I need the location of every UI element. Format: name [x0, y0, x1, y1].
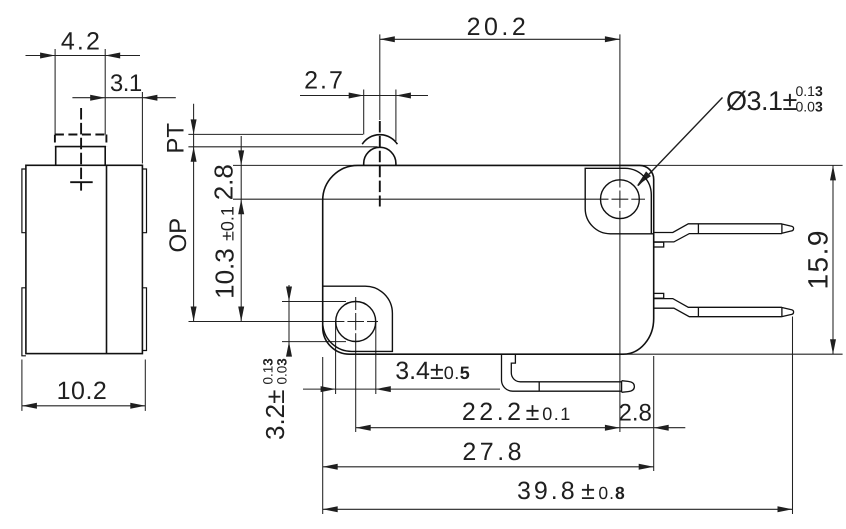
svg-text:10.3 ±0.1: 10.3 ±0.1	[210, 206, 240, 299]
svg-text:3.1: 3.1	[110, 70, 142, 97]
svg-text:15.9: 15.9	[803, 229, 834, 290]
svg-text:2.8: 2.8	[619, 399, 652, 426]
svg-text:PT: PT	[163, 123, 190, 154]
svg-text:39.8±0.8: 39.8±0.8	[517, 477, 626, 505]
svg-text:3.4±0.5: 3.4±0.5	[395, 357, 470, 385]
svg-text:0.13: 0.13	[796, 83, 823, 99]
svg-text:Ø3.1±: Ø3.1±	[726, 86, 797, 116]
svg-text:10.2: 10.2	[57, 377, 108, 405]
svg-text:0.13: 0.13	[261, 358, 276, 385]
svg-text:2.8: 2.8	[209, 164, 239, 200]
svg-text:22.2±0.1: 22.2±0.1	[462, 398, 572, 426]
svg-text:2.7: 2.7	[304, 67, 345, 95]
svg-text:OP: OP	[165, 218, 192, 253]
svg-text:4.2: 4.2	[61, 28, 102, 56]
svg-text:3.2±: 3.2±	[260, 390, 290, 440]
svg-text:0.03: 0.03	[275, 358, 290, 385]
svg-text:27.8: 27.8	[462, 438, 525, 466]
svg-text:0.03: 0.03	[796, 99, 823, 115]
svg-text:20.2: 20.2	[467, 13, 530, 41]
